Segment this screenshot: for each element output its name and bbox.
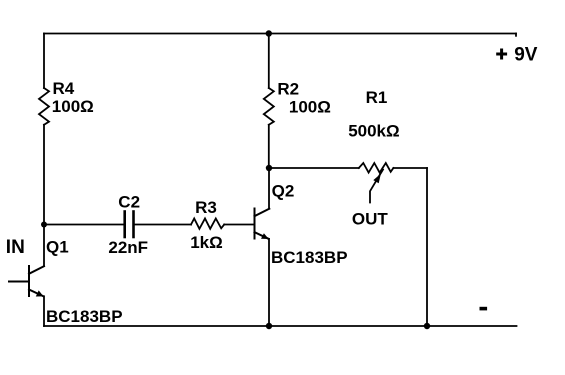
wire right vertical [426,168,428,326]
svg-text:R1: R1 [366,88,388,107]
svg-text:C2: C2 [118,192,140,211]
transistor Q2 [255,209,270,239]
svg-text:IN: IN [6,237,25,258]
node junction dot bottom right [424,323,430,329]
wire left vertical upper [43,34,45,89]
svg-text:R3: R3 [195,198,217,217]
svg-text:R4: R4 [53,79,75,98]
resistor R2 [264,88,274,125]
wire R1 to right vertical [393,167,427,169]
node junction dot bottom middle [266,323,272,329]
svg-text:R2: R2 [277,79,299,98]
arrowhead Q2 emitter [261,233,269,239]
svg-text:BC183BP: BC183BP [271,248,348,267]
svg-text:Q1: Q1 [46,238,69,257]
svg-text:1kΩ: 1kΩ [190,233,223,252]
node junction dot top rail [266,30,272,36]
wire Q2 collector vertical [268,168,270,209]
svg-text:OUT: OUT [352,210,389,229]
svg-text:BC183BP: BC183BP [46,307,123,326]
capacitor C2 [125,212,134,238]
wiper arrowhead R1 [373,174,381,184]
wire Q1 emitter to bottom rail [43,296,45,326]
wire Q2 emitter to bottom rail [268,239,270,326]
wire middle vertical from top rail [268,34,270,89]
wire base rail y=224 [44,224,125,226]
svg-text:22nF: 22nF [108,238,148,257]
resistor R4 [39,88,49,125]
wire bottom rail [44,325,517,327]
svg-text:500kΩ: 500kΩ [348,122,399,141]
node junction dot base rail left [41,222,47,228]
label minus terminal [480,307,488,311]
svg-text:9V: 9V [514,44,538,65]
resistor R3 [191,219,224,229]
svg-text:100Ω: 100Ω [52,97,94,116]
node junction dot output [266,165,272,171]
potentiometer R1 [359,163,394,173]
wire top rail end tick [515,34,517,36]
wire C2 to R3 [134,224,192,226]
arrowhead Q1 emitter [36,290,44,296]
wire top rail +9V [44,33,516,35]
transistor Q1 [9,266,44,296]
wire left vertical middle [43,125,45,266]
wire R2 bottom to node [268,125,270,168]
label +9V supply plus sign [496,49,507,60]
svg-text:100Ω: 100Ω [289,98,331,117]
wire output rail y=168 [269,167,359,169]
wiper R1 [370,170,383,203]
svg-text:Q2: Q2 [272,182,295,201]
wire R3 to Q2 base [224,224,254,226]
